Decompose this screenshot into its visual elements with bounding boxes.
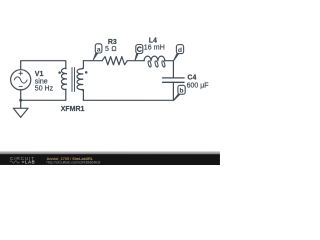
resistor R3 — [102, 57, 127, 65]
ground — [20, 100, 22, 108]
svg-text:b: b — [179, 88, 183, 95]
inductor L4 — [144, 56, 165, 61]
node d flag — [173, 45, 183, 61]
node b flag — [173, 85, 185, 101]
svg-text:=LAB: =LAB — [22, 159, 36, 164]
wire top-left rail — [21, 61, 66, 70]
wire top rail to resistor — [83, 60, 102, 62]
svg-text:16 mH: 16 mH — [144, 44, 165, 51]
node a flag — [93, 44, 102, 61]
transformer secondary winding — [77, 68, 83, 90]
wire bottom-left rail — [21, 99, 66, 101]
wire bottom-right rail — [83, 99, 173, 101]
wire capacitor to bottom rail — [172, 82, 174, 100]
svg-text:XFMR1: XFMR1 — [61, 106, 85, 113]
watermark bar — [0, 151, 220, 165]
svg-text:http://circuitlab.com/c6438864: http://circuitlab.com/c6438864k3r — [46, 160, 101, 164]
wire inductor to corner, down to capacitor — [165, 61, 174, 78]
svg-text:600 µF: 600 µF — [187, 82, 209, 89]
svg-text:C4: C4 — [187, 75, 196, 82]
capacitor C4 — [163, 78, 185, 82]
transformer core — [72, 68, 75, 92]
junction dot at source bottom — [19, 99, 22, 102]
svg-text:d: d — [178, 47, 182, 54]
svg-text:5 Ω: 5 Ω — [105, 46, 117, 53]
wire resistor to inductor — [127, 60, 144, 62]
svg-text:V1: V1 — [35, 71, 44, 78]
transformer winding knots — [65, 68, 83, 90]
watermark logo squiggle — [10, 161, 20, 163]
wire secondary bottom lead — [82, 90, 84, 101]
wire source bottom — [20, 90, 22, 100]
svg-text:50 Hz: 50 Hz — [35, 85, 54, 92]
svg-text:sine: sine — [35, 78, 48, 85]
voltage source V1 — [11, 70, 31, 90]
wire primary bottom lead — [65, 90, 67, 101]
transformer polarity dot left — [58, 71, 61, 74]
svg-text:a: a — [97, 46, 101, 53]
transformer XFMR1 primary winding — [61, 68, 65, 89]
wire secondary top lead — [82, 61, 84, 68]
transformer polarity dot right — [85, 71, 88, 74]
node c flag — [135, 45, 143, 61]
